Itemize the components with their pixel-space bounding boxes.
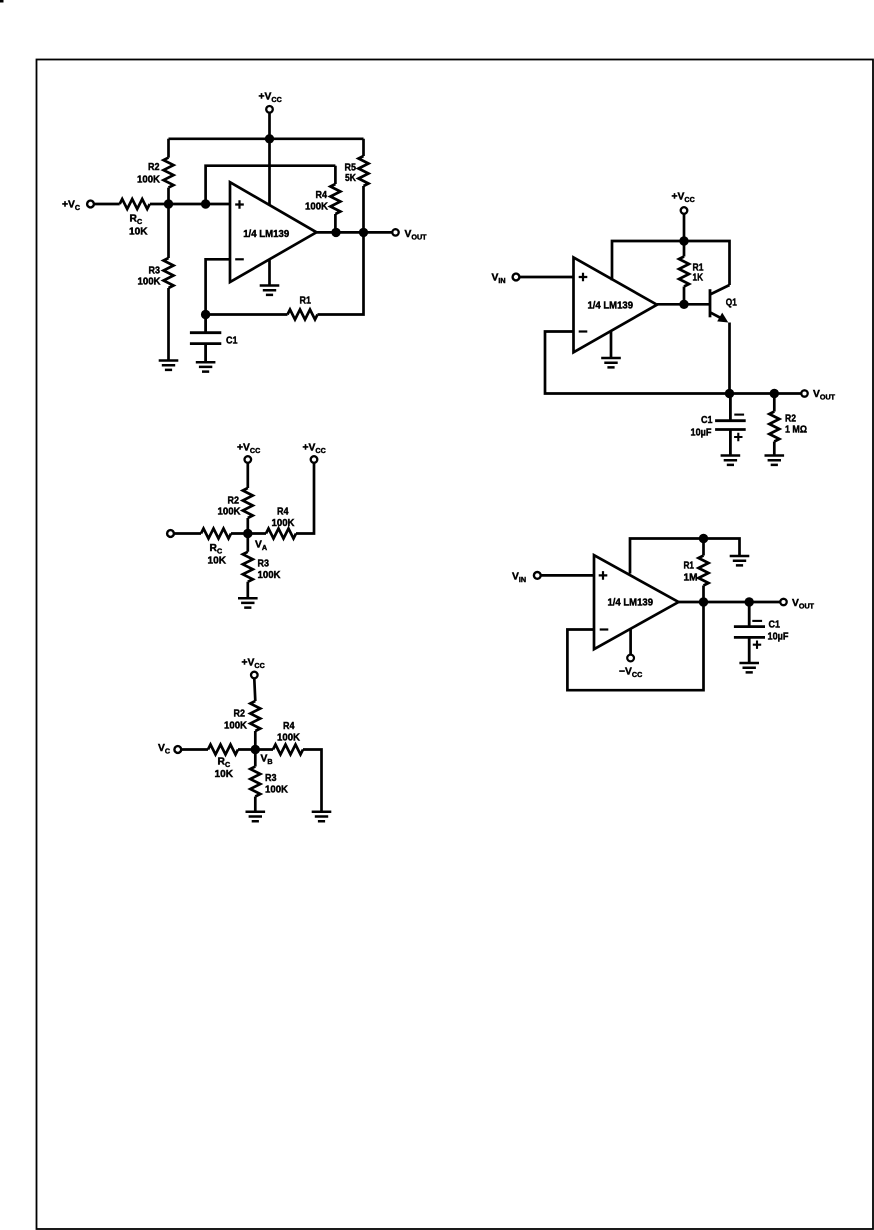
resistor R4 100K <box>334 166 337 233</box>
pin + (non-inverting) <box>579 273 588 282</box>
pin - (inverting) <box>235 258 244 260</box>
wire inverting feedback <box>545 332 730 394</box>
terminal VOUT <box>801 390 807 396</box>
node VA junction <box>243 529 252 538</box>
svg-text:100K: 100K <box>137 175 161 186</box>
terminal +VC <box>87 201 94 208</box>
capacitor C1 10uF (polarized) <box>734 602 765 663</box>
wire input row <box>95 203 231 206</box>
wire inverting input <box>206 259 230 314</box>
wire input row <box>175 532 267 535</box>
node output junction (R4) <box>331 228 340 237</box>
resistor R2 100K <box>246 464 249 534</box>
svg-text:1K: 1K <box>693 273 704 284</box>
op-amp V- pin wire <box>629 628 632 654</box>
svg-text:1/4 LM139: 1/4 LM139 <box>243 229 289 240</box>
op-amp U3 1/4 LM139 <box>594 555 679 649</box>
ground (R3) <box>159 361 179 370</box>
wire output row <box>679 601 780 604</box>
wire bottom rail <box>206 232 364 314</box>
resistor R2 100K <box>167 139 170 204</box>
svg-text:10µF: 10µF <box>691 427 712 438</box>
wire inverting feedback <box>567 602 703 690</box>
resistor R4 100K <box>273 745 303 755</box>
op-amp gnd pin wire <box>610 331 613 358</box>
resistor R1 <box>288 310 318 320</box>
ground (R3) <box>238 598 258 607</box>
pin + (non-inverting) <box>235 200 244 209</box>
capacitor C1 <box>190 315 221 363</box>
node C1 junction <box>745 597 754 606</box>
svg-text:R2: R2 <box>148 162 160 173</box>
svg-text:C1: C1 <box>769 619 781 630</box>
resistor R1 1K <box>683 241 686 304</box>
svg-text:R4: R4 <box>316 190 328 201</box>
resistor R3 100K <box>246 534 249 598</box>
wire input row <box>182 748 273 751</box>
svg-text:C1: C1 <box>701 415 713 426</box>
ground (R4) <box>312 812 332 821</box>
resistor R2 1M <box>773 394 776 456</box>
node A junction <box>164 199 173 208</box>
resistor R4 100K <box>266 529 296 539</box>
node emitter/output junction <box>725 389 734 398</box>
terminal VOUT <box>392 229 398 235</box>
svg-text:R2: R2 <box>785 414 796 425</box>
svg-text:R3: R3 <box>149 266 161 277</box>
svg-text:Q1: Q1 <box>726 298 737 309</box>
resistor R2 100K <box>254 679 255 750</box>
svg-text:5K: 5K <box>345 173 356 184</box>
terminal VIN <box>513 274 520 281</box>
terminal +VCC (right) <box>311 456 318 463</box>
ground (top rail) <box>730 556 750 565</box>
wire op-amp output to base <box>657 303 710 306</box>
capacitor C1 10uF (polarized) <box>715 394 746 456</box>
svg-text:R2: R2 <box>228 495 240 506</box>
svg-text:100K: 100K <box>277 733 301 744</box>
ground (R2) <box>765 456 785 465</box>
svg-text:100K: 100K <box>265 784 289 795</box>
ground (C1) <box>721 456 741 465</box>
ground (op-amp) <box>601 358 621 367</box>
pin + (non-inverting) <box>599 571 608 580</box>
svg-text:R4: R4 <box>283 721 295 732</box>
op-amp U2 1/4 LM139 <box>574 258 658 353</box>
pin - (inverting) <box>579 330 588 332</box>
svg-text:10µF: 10µF <box>768 632 789 643</box>
op-amp gnd pin wire <box>268 260 271 286</box>
terminal VC <box>174 746 181 753</box>
svg-text:10K: 10K <box>215 769 234 780</box>
node C junction <box>201 310 210 319</box>
resistor R5 5K <box>362 139 365 233</box>
node output junction <box>699 597 708 606</box>
node +VCC junction <box>679 236 688 245</box>
node VB junction <box>251 745 260 754</box>
terminal VOUT <box>780 599 786 605</box>
transistor Q1 <box>709 289 712 317</box>
svg-text:1M: 1M <box>684 572 698 583</box>
wire second rail (+ input feedback) <box>206 166 336 204</box>
node output junction <box>679 300 688 309</box>
resistor RC 10K <box>208 745 238 755</box>
svg-text:1 MΩ: 1 MΩ <box>785 425 807 436</box>
wire input <box>520 276 574 279</box>
wire output row <box>730 392 801 395</box>
svg-text:R1: R1 <box>684 560 695 571</box>
svg-text:R5: R5 <box>345 163 357 174</box>
svg-text:100K: 100K <box>138 277 162 288</box>
svg-text:R3: R3 <box>258 559 270 570</box>
svg-text:100K: 100K <box>305 202 329 213</box>
resistor R1 1M <box>702 539 705 603</box>
svg-text:100K: 100K <box>224 720 248 731</box>
page corner mark <box>0 0 4 3</box>
ground (C1) <box>196 362 216 371</box>
svg-text:1/4 LM139: 1/4 LM139 <box>608 597 654 608</box>
svg-text:100K: 100K <box>272 518 296 529</box>
svg-text:R3: R3 <box>265 773 277 784</box>
resistor R3 100K <box>254 750 257 812</box>
svg-text:R2: R2 <box>234 708 246 719</box>
wire top rail <box>630 539 740 574</box>
op-amp V+ pin wire <box>268 139 271 205</box>
resistor RC 10K <box>201 529 231 539</box>
wire top rail <box>169 137 364 140</box>
svg-text:10K: 10K <box>129 227 148 238</box>
terminal +VCC <box>266 106 273 113</box>
resistor R3 100K <box>167 204 170 361</box>
terminal VIN <box>534 572 541 579</box>
svg-text:1/4 LM139: 1/4 LM139 <box>588 300 634 311</box>
terminal -VCC <box>627 655 634 662</box>
ground (op-amp) <box>260 286 280 295</box>
svg-text:C1: C1 <box>226 336 238 347</box>
wire output row <box>317 231 392 234</box>
terminal +VCC <box>251 672 258 679</box>
ground (C1) <box>739 663 759 672</box>
wire top rail <box>612 241 730 285</box>
svg-text:100K: 100K <box>218 506 242 517</box>
svg-text:100K: 100K <box>258 570 282 581</box>
svg-text:R4: R4 <box>277 506 289 517</box>
resistor RC 10K <box>120 199 150 209</box>
terminal +VCC (left) <box>245 456 252 463</box>
ground (R3) <box>246 812 266 821</box>
svg-text:R1: R1 <box>300 296 312 307</box>
wire input <box>541 574 594 577</box>
svg-text:10K: 10K <box>208 556 227 567</box>
pin - (inverting) <box>600 628 609 630</box>
terminal input (unlabeled) <box>167 530 174 537</box>
node output junction (R5) <box>359 228 368 237</box>
node +VCC junction <box>265 134 274 143</box>
node B junction <box>201 199 210 208</box>
node R1 top junction <box>699 534 708 543</box>
node R2 junction <box>770 389 779 398</box>
terminal +VCC <box>681 207 688 214</box>
op-amp U1 1/4 LM139 <box>230 182 317 282</box>
